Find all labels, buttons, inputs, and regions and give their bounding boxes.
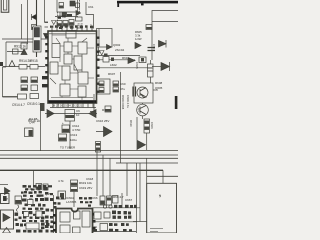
- bus line 3: [0, 157, 178, 159]
- resistor R601: [32, 25, 37, 30]
- resistor R652: [43, 184, 48, 190]
- resistor R632: [113, 87, 119, 92]
- resistor R625: [21, 85, 28, 91]
- svg-text:TO TUNER: TO TUNER: [60, 146, 76, 150]
- node marks: [67, 14, 72, 17]
- transistor Q602: [62, 13, 67, 17]
- svg-text:C60: C60: [120, 82, 126, 86]
- resistor R651: [36, 184, 42, 190]
- resistor R662: [113, 196, 119, 204]
- terminal mark: [0, 62, 3, 66]
- svg-text:R609 C608: R609 C608: [121, 95, 125, 110]
- wire L-shape H: [86, 2, 94, 29]
- wire bottom row3: [92, 231, 136, 233]
- svg-text:2SC94: 2SC94: [115, 48, 125, 52]
- transistor Q601 cluster: [21, 43, 27, 49]
- svg-text:C61: C61: [88, 5, 94, 9]
- connector label block 2: [34, 41, 39, 51]
- svg-text:C667: C667: [125, 198, 133, 202]
- ground sym: [52, 21, 57, 25]
- wire vertical net C: [36, 0, 38, 57]
- wire vertical net B: [27, 0, 29, 44]
- svg-text:R61: R61: [122, 56, 128, 60]
- svg-text:C606: C606: [150, 122, 154, 129]
- svg-text:R607: R607: [108, 72, 116, 76]
- svg-text:R66 4.7: R66 4.7: [113, 195, 124, 199]
- svg-text:C44: C44: [29, 121, 35, 125]
- diode D642: [138, 141, 146, 150]
- resistor R627: [3, 96, 19, 98]
- svg-text:C915 0.1: C915 0.1: [27, 102, 40, 106]
- bottom-left dense cluster: [15, 185, 65, 233]
- wire mid row: [45, 113, 97, 115]
- svg-text:R610: R610: [129, 120, 133, 127]
- wire vertical net D: [45, 0, 49, 22]
- connector box left: [1, 194, 10, 204]
- capacitor C610: [65, 110, 75, 122]
- svg-text:GND: GND: [26, 187, 34, 191]
- wire dashed F: [57, 12, 59, 28]
- IC U601 main block: [48, 31, 97, 103]
- svg-text:C604: C604: [152, 44, 156, 51]
- speaker box SP601: [1, 210, 14, 229]
- right column: resistor R640: [139, 57, 146, 63]
- capacitor C612: [62, 125, 70, 133]
- capacitor C621: [99, 88, 104, 93]
- capacitor C661: [107, 196, 112, 205]
- resistor R602: [57, 21, 62, 27]
- IC U601 top pin labels: [50, 25, 93, 28]
- transistor Q650: [5, 188, 11, 195]
- svg-text:C616 25V: C616 25V: [96, 119, 109, 123]
- IC U601 inner block 2: [64, 42, 72, 52]
- svg-text:L602: L602: [110, 63, 117, 67]
- connector label block 1: [34, 28, 39, 38]
- IC U601 inner block 7: [62, 66, 70, 80]
- rect box Q603 area: [97, 29, 113, 48]
- wire right of IC row3: [97, 75, 100, 77]
- wire long vertical to bus: [120, 72, 122, 163]
- IC U602 inner block 1: [60, 212, 70, 222]
- resistor R624: [31, 77, 38, 83]
- IC U601 inner block 9: [60, 84, 70, 96]
- capacitor C601: [59, 3, 64, 9]
- wire bottom row1: [92, 207, 140, 209]
- bus horizontal right y176: [147, 175, 178, 177]
- wire from shield: [55, 12, 78, 17]
- IC U601 bottom pins: [53, 103, 93, 108]
- capacitor C622: [133, 87, 136, 97]
- capacitor pair C651: [71, 180, 78, 186]
- IC U602 block: [56, 209, 93, 234]
- svg-text:+: +: [62, 121, 64, 125]
- wire bottom row2: [92, 221, 137, 223]
- bus line 4 thick: [0, 169, 163, 171]
- resistor R626: [31, 85, 38, 91]
- diode D641: [161, 62, 170, 71]
- svg-text:R3: R3: [102, 108, 106, 112]
- resistor R607: [103, 57, 109, 63]
- capacitor C650: [15, 196, 22, 204]
- node dot: [111, 58, 114, 62]
- svg-text:4.7k: 4.7k: [58, 179, 64, 183]
- right edge mark: [175, 96, 178, 109]
- diode D605: [159, 40, 167, 48]
- svg-text:C66: C66: [92, 196, 98, 200]
- IC U601 inner block 3: [78, 42, 87, 54]
- resistor R622: [30, 65, 38, 70]
- box right of IC: [97, 79, 110, 94]
- left section border: [3, 42, 34, 97]
- resistor R630: [25, 128, 34, 137]
- wire vertical G: [79, 0, 81, 12]
- svg-text:C613: C613: [70, 133, 78, 137]
- wire right verticals: [137, 117, 147, 151]
- resistor R621: [19, 65, 27, 70]
- resistor R650 pill: [26, 223, 39, 229]
- IC U601 inner block 6: [50, 62, 58, 74]
- svg-text:R915: R915: [30, 59, 38, 63]
- IC U602 pins: [53, 214, 56, 217]
- diode D602: [76, 11, 81, 16]
- resistor R631: [113, 81, 119, 86]
- smudge above IC2: [79, 197, 92, 207]
- IC U601 inner block 8: [78, 72, 88, 84]
- diode D606: [128, 58, 135, 64]
- svg-text:R608: R608: [155, 81, 163, 85]
- svg-text:Q65: Q65: [45, 192, 51, 196]
- wire right of IC row2: [100, 67, 153, 69]
- triangle bottom-left: [3, 228, 11, 234]
- transistor Q641: [137, 104, 149, 116]
- box top-center shield: [57, 0, 78, 12]
- IC U602 inner block 5: [73, 227, 81, 233]
- bus drop leftmid: [33, 170, 35, 187]
- IC U601 inner block 0: [66, 31, 76, 39]
- wire vertical net A: [2, 4, 48, 39]
- svg-text:C605: C605: [135, 62, 139, 69]
- wire to bus: [40, 105, 42, 151]
- svg-text:C914 4.7: C914 4.7: [12, 103, 25, 107]
- resistor R603: [63, 21, 68, 27]
- capacitor C605 bars: [148, 48, 156, 51]
- resistor R628: [30, 94, 39, 99]
- svg-text:C619 25V: C619 25V: [79, 186, 92, 190]
- bus line 1: [0, 149, 178, 151]
- wire center drop: [69, 121, 71, 149]
- ground triangle near IC: [44, 34, 49, 39]
- dark blobs bottom-center: [112, 211, 131, 219]
- IC U602 inner block 3: [82, 211, 90, 227]
- wire top-right box: [152, 11, 178, 61]
- svg-text:C609 4.7u: C609 4.7u: [126, 95, 130, 108]
- box inner lines: [150, 229, 163, 232]
- resistor R633: [105, 106, 111, 112]
- nodes on wire: [103, 205, 106, 208]
- diode D610: [47, 110, 54, 118]
- diode D612: [96, 127, 112, 137]
- ground right: [100, 51, 105, 56]
- IC U601 inner block 10: [78, 86, 86, 97]
- transistor Q640: [137, 87, 148, 98]
- svg-text:TP08: TP08: [58, 15, 66, 19]
- IC U602 inner block 2: [74, 211, 81, 219]
- svg-text:28 27 26 25 24 23 22 21: 28 27 26 25 24 23 22 21: [52, 104, 83, 108]
- text smudges (labels): [4, 5, 163, 229]
- diode D611: [89, 110, 96, 118]
- diode D601: [32, 14, 37, 20]
- svg-text:R913 1k: R913 1k: [14, 45, 26, 49]
- crystal X601: [70, 1, 75, 6]
- transistor Q604: [107, 45, 112, 50]
- connector strip outline: [33, 26, 41, 52]
- svg-text:2: 2: [90, 24, 92, 28]
- capacitor C642: [144, 119, 150, 133]
- transistor Q640 box: [134, 83, 153, 103]
- svg-text:Q605: Q605: [155, 86, 163, 90]
- bottom text blobs: [100, 224, 108, 231]
- svg-text:1/2W: 1/2W: [135, 37, 142, 41]
- IC U601 inner block 4: [64, 54, 72, 64]
- wire top-left U bracket: [1, 0, 9, 12]
- small component boxes in cluster: [28, 200, 34, 205]
- capacitor C623: [96, 142, 101, 153]
- resistor R623: [21, 77, 28, 83]
- power rail thick top-right: [117, 1, 178, 4]
- dark cluster IC corner: [40, 103, 45, 111]
- wire vertical from box: [90, 94, 94, 112]
- wire bracket E: [45, 23, 49, 28]
- capacitor C641: [148, 64, 154, 77]
- svg-text:SP: SP: [4, 197, 8, 201]
- svg-text:4B: 4B: [158, 194, 162, 198]
- capacitor C613: [59, 134, 67, 141]
- svg-text:100u: 100u: [70, 138, 77, 142]
- resistor R615 column: [76, 3, 80, 8]
- svg-text:4.7/50: 4.7/50: [72, 128, 81, 132]
- IC U601 inner block 5: [74, 56, 82, 70]
- svg-text:LA7805: LA7805: [66, 200, 77, 204]
- wire I: [97, 55, 141, 57]
- IC U601 top pins: [52, 28, 92, 32]
- wire spk: [152, 66, 161, 68]
- zener D620: [3, 61, 46, 67]
- IC U601 internal wiring: [50, 31, 94, 89]
- IC U601 inner block 1: [52, 44, 60, 58]
- svg-text:47u: 47u: [120, 87, 125, 91]
- wire IC2 feed: [54, 192, 75, 234]
- capacitor C620: [99, 81, 104, 86]
- transistor Q651: [58, 191, 66, 199]
- IC U601 right pins: [97, 37, 100, 93]
- resistor R661: [104, 212, 110, 218]
- wire drop: [121, 193, 123, 208]
- bus horizontal right y163: [116, 162, 178, 164]
- svg-text:R9: R9: [93, 225, 97, 229]
- bottom-left: wire stub: [0, 184, 8, 186]
- resistor R620: [7, 51, 24, 53]
- resistor R612: [76, 17, 83, 21]
- svg-text:10: 10: [76, 113, 80, 117]
- bus line 2: [0, 154, 178, 156]
- diode D604: [135, 43, 141, 49]
- svg-text:Q6: Q6: [137, 108, 141, 112]
- IC U602 inner block 4: [60, 225, 70, 233]
- box bottom-right: [147, 183, 177, 233]
- resistor R660: [94, 212, 101, 219]
- bottom-center: capacitor C660: [100, 196, 105, 205]
- wire bottom-right short: [133, 221, 147, 223]
- wire right of IC row1: [100, 59, 136, 61]
- resistor R604: [69, 20, 74, 26]
- resistor R605: [146, 25, 152, 30]
- node dot: [104, 54, 108, 58]
- svg-text:R619 10k: R619 10k: [79, 181, 92, 185]
- svg-text:Q602: Q602: [113, 43, 121, 47]
- bus verticals right: [97, 150, 163, 233]
- IC U601 left pins: [42, 36, 48, 87]
